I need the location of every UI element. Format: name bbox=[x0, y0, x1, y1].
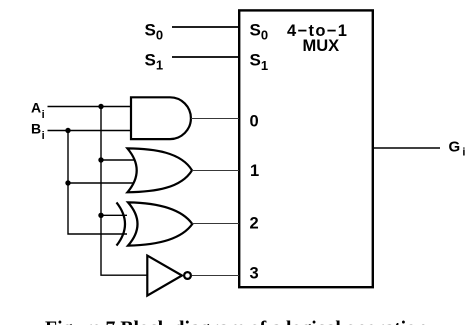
wire NOT output to MUX input 3 bbox=[192, 275, 239, 277]
junction dot A on Ai wire bbox=[98, 104, 103, 109]
svg-text:2: 2 bbox=[250, 215, 259, 233]
svg-text:3: 3 bbox=[250, 264, 259, 282]
wire XOR output to MUX input 2 bbox=[192, 223, 239, 225]
wire XOR top input bbox=[101, 214, 127, 216]
wire S0 bbox=[172, 26, 239, 28]
wire AND output to MUX input 0 bbox=[191, 118, 239, 120]
wire S1 bbox=[172, 56, 239, 58]
OR gate bbox=[127, 148, 192, 192]
AND gate bbox=[131, 97, 191, 139]
wire A vertical bus bbox=[101, 107, 148, 276]
junction dot A to XOR input bbox=[98, 213, 103, 218]
wire Gi output bbox=[373, 147, 440, 149]
NOT gate bubble bbox=[184, 272, 191, 279]
XOR gate leading arc bbox=[117, 202, 126, 245]
NOT gate Q triangle bbox=[147, 256, 182, 296]
wire B vertical bus bbox=[68, 131, 127, 235]
wire Bi horizontal bbox=[48, 130, 132, 132]
junction dot B to OR input bbox=[65, 180, 70, 185]
XOR gate body bbox=[128, 202, 192, 245]
MUX U1 4-to-1 box bbox=[239, 10, 373, 287]
wire OR bottom input bbox=[68, 182, 134, 184]
svg-text:1: 1 bbox=[250, 162, 259, 180]
wire OR top input bbox=[101, 159, 134, 161]
junction dot B on Bi wire bbox=[65, 128, 70, 133]
svg-text:0: 0 bbox=[250, 112, 259, 130]
svg-text:Figure 7 Block diagram of a lo: Figure 7 Block diagram of a logical oper… bbox=[45, 318, 427, 325]
junction dot A to OR input bbox=[98, 157, 103, 162]
svg-text:MUX: MUX bbox=[303, 37, 340, 55]
wire OR output to MUX input 1 bbox=[192, 170, 239, 172]
wire Ai horizontal bbox=[48, 106, 132, 108]
